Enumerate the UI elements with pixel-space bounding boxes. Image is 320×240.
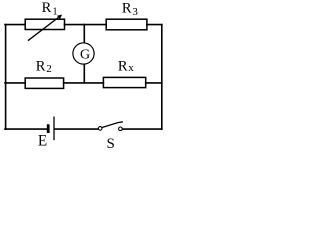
svg-text:E: E xyxy=(38,133,47,150)
svg-text:G: G xyxy=(80,47,90,62)
svg-text:S: S xyxy=(107,136,115,150)
svg-text:1: 1 xyxy=(52,6,57,17)
svg-text:x: x xyxy=(128,62,134,74)
svg-text:R: R xyxy=(42,0,52,16)
svg-text:R: R xyxy=(122,0,132,16)
svg-text:2: 2 xyxy=(46,63,52,75)
svg-text:R: R xyxy=(118,59,128,75)
svg-text:3: 3 xyxy=(132,6,138,18)
svg-text:R: R xyxy=(36,59,46,75)
